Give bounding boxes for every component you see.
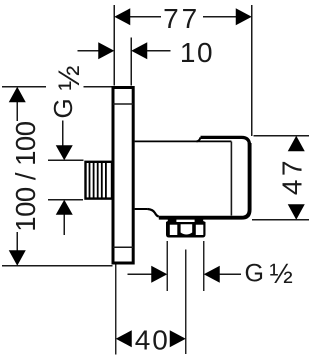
extension line left of 77 dim	[113, 5, 115, 86]
hose connection hex nut	[166, 218, 206, 238]
svg-text:G: G	[245, 260, 264, 288]
body back block	[135, 141, 232, 209]
dimension 10	[78, 37, 215, 68]
svg-text:G: G	[48, 98, 78, 118]
svg-text:40: 40	[135, 325, 170, 356]
svg-text:½: ½	[53, 65, 86, 90]
dimension G 1/2 bottom	[128, 258, 293, 289]
svg-text:47: 47	[277, 157, 308, 195]
outlet centerline	[185, 250, 187, 355]
extension lines for bottom G 1/2	[167, 241, 204, 291]
G 1/2 top leader arrows	[48, 121, 84, 236]
dimension 77	[114, 3, 252, 34]
dimension 40	[116, 325, 186, 356]
extension line right of 10 dim	[130, 38, 132, 86]
extension line right of 77 dim (front face)	[251, 5, 253, 136]
label G 1/2 top left	[48, 65, 86, 118]
extension line left of 40 dim	[115, 265, 117, 355]
front cap outline	[148, 137, 250, 217]
threaded wall connection G1/2	[86, 162, 113, 199]
escutcheon plate (side view)	[113, 88, 133, 264]
dimension 100 / 100	[2, 87, 113, 266]
dimension 47	[252, 136, 309, 220]
svg-text:10: 10	[180, 37, 214, 68]
svg-text:100 / 100: 100 / 100	[10, 121, 41, 231]
svg-text:77: 77	[163, 3, 200, 34]
svg-text:½: ½	[270, 258, 293, 289]
